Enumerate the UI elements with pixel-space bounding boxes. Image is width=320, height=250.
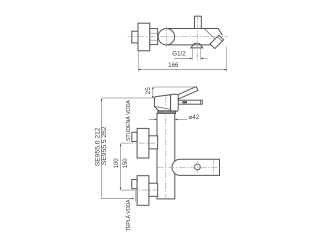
nut flats: [150, 33, 158, 40]
svg-text:⌀42: ⌀42: [189, 114, 200, 121]
hot escutcheon: [137, 176, 149, 206]
lever end cap: [200, 100, 202, 104]
166 extension lines: [139, 47, 227, 72]
centerline vertical through knob and outlet: [196, 15, 198, 62]
hot water axis centerline: [131, 189, 159, 191]
horizontal lever: [178, 100, 202, 104]
shower arm: [172, 159, 220, 175]
connection nut (top view): [150, 29, 158, 45]
ball joint: [158, 29, 174, 45]
cold wall pipe: [132, 132, 137, 141]
dimension line 100/150 (inlet to inlet): [120, 144, 122, 190]
svg-text:166: 166: [168, 62, 179, 69]
lever hub: [171, 94, 179, 111]
arm end vertical axis mark: [213, 160, 215, 174]
internal chamfer line: [205, 29, 215, 39]
cold water axis centerline: [128, 142, 159, 144]
G1/2 dimension line: [174, 57, 192, 59]
height leader bottom: [102, 198, 134, 200]
angled lever: [169, 87, 198, 103]
hot wall pipe: [132, 180, 137, 189]
dia42 dimension: [149, 119, 157, 121]
body center line vertical: [165, 97, 167, 201]
svg-text:SE955.5 262: SE955.5 262: [101, 126, 108, 165]
wall pipe (top view): [132, 31, 138, 43]
svg-text:25: 25: [145, 87, 152, 95]
angled spout end: [210, 35, 224, 48]
svg-text:TEPLÁ VODA: TEPLÁ VODA: [125, 199, 132, 231]
cold nut: [149, 136, 158, 149]
head cone: [154, 95, 170, 111]
hot nut: [149, 183, 158, 196]
dimension 25 line: [152, 87, 154, 98]
cold escutcheon: [137, 128, 149, 158]
wall flange (top view): [138, 23, 150, 51]
cold water axis: [121, 142, 132, 144]
166 dimension line: [139, 69, 227, 71]
svg-text:150: 150: [123, 158, 129, 169]
svg-text:100: 100: [114, 158, 120, 169]
head cone internal line: [154, 106, 170, 109]
diverter knob (top view): [195, 16, 202, 28]
svg-text:STUDENÁ VODA: STUDENÁ VODA: [125, 100, 132, 141]
extension line head top / 212 datum: [102, 97, 155, 99]
svg-text:G1/2: G1/2: [172, 50, 186, 57]
centerline vertical through ball: [165, 26, 167, 47]
arm hole: [195, 164, 201, 170]
arm hole vertical axis: [196, 161, 198, 174]
arm axis: [158, 166, 223, 168]
centerline horizontal of body: [128, 36, 229, 38]
G1/2 extension lines: [193, 49, 201, 60]
dimension line 212/262 (overall height): [101, 99, 103, 199]
lever logo mark: [182, 101, 187, 103]
spout joint line: [218, 37, 223, 42]
extension line lever top: [153, 86, 197, 88]
body bar (top view): [167, 29, 223, 45]
body tube: [157, 113, 175, 198]
shower outlet G1/2 (top view): [191, 43, 203, 48]
extension line at hot pipe: [135, 191, 137, 202]
hot water axis: [121, 189, 136, 191]
cartridge ring: [158, 111, 176, 114]
